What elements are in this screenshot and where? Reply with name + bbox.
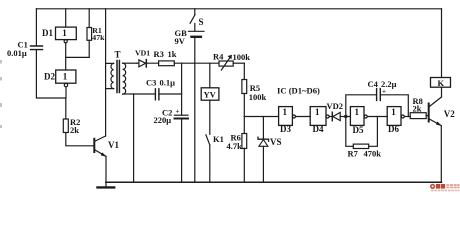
wire D1 out down	[65, 43, 67, 70]
gate D1 output bubble	[64, 40, 67, 43]
svg-text:D1: D1	[42, 28, 53, 38]
wire top rail	[36, 8, 441, 10]
svg-text:47k: 47k	[92, 33, 105, 42]
resistor R1	[87, 28, 92, 41]
wire left column top (to C1)	[35, 9, 37, 46]
relay coil K	[441, 9, 443, 78]
ground	[105, 182, 107, 187]
svg-text:1: 1	[315, 107, 320, 117]
resistor R6	[242, 134, 247, 149]
wire R5 top	[243, 63, 245, 79]
wire secondary top (main mid rail)	[123, 62, 137, 64]
wire VS drop	[262, 117, 264, 140]
svg-text:1: 1	[391, 107, 396, 117]
resistor R5	[242, 80, 247, 94]
transformer T primary winding	[111, 63, 114, 88]
wire K1 down	[209, 145, 211, 182]
wire C3 left	[134, 93, 156, 95]
edge marks	[0, 60, 2, 128]
svg-text:+: +	[176, 108, 180, 116]
svg-text:VD1: VD1	[135, 48, 150, 57]
diode VD1	[139, 60, 146, 67]
capacitor C1	[31, 46, 43, 50]
svg-text:2k: 2k	[413, 104, 422, 114]
wire D3 to D4	[296, 116, 311, 118]
wire secondary drop to ground rail	[133, 94, 135, 182]
transformer T secondary winding	[123, 63, 126, 94]
wire R5 to junction	[243, 94, 245, 117]
svg-text:K1: K1	[213, 134, 224, 144]
watermark	[430, 184, 460, 192]
svg-text:2k: 2k	[70, 125, 79, 135]
transformer T primary stubs	[106, 63, 114, 88]
svg-text:K: K	[438, 78, 445, 88]
solenoid valve YV	[201, 88, 219, 100]
svg-text:D5: D5	[353, 125, 364, 135]
wire YV drop	[209, 63, 211, 88]
transistor V2	[428, 104, 430, 122]
switch S	[194, 9, 196, 15]
wire junction to D3	[244, 116, 278, 118]
svg-text:D3: D3	[280, 124, 291, 134]
gate D4	[310, 107, 326, 126]
svg-text:VS: VS	[270, 137, 282, 147]
svg-text:1: 1	[355, 107, 360, 117]
wire C1 bottom to junction	[36, 50, 65, 98]
capacitor C2	[175, 114, 189, 116]
wire R4 to R5	[233, 62, 244, 64]
wire R8 to V2 base	[426, 115, 429, 117]
svg-text:1k: 1k	[168, 49, 177, 59]
wire D6 to R8	[404, 116, 410, 118]
transformer T core	[117, 61, 119, 93]
wire S to GB	[194, 24, 196, 32]
wire bottom rail	[106, 181, 442, 183]
wire R3 to R4	[174, 62, 219, 64]
resistor R2	[63, 119, 68, 133]
svg-text:9V: 9V	[175, 36, 186, 46]
gate D5	[350, 107, 364, 126]
svg-text:R3: R3	[154, 49, 164, 59]
resistor R8	[410, 113, 426, 119]
wire R1 top drop	[88, 9, 90, 28]
svg-text:220μ: 220μ	[154, 115, 172, 125]
svg-text:YV: YV	[204, 90, 217, 100]
wire junction down to R2	[65, 98, 67, 119]
wire D2 out to junction	[65, 87, 67, 98]
gate D2	[56, 70, 76, 83]
wire C3 right	[159, 93, 182, 95]
wire YV to K1	[209, 100, 211, 134]
svg-text:D6: D6	[388, 124, 399, 134]
gate D1	[56, 27, 77, 39]
wire VD2 to junction	[340, 116, 350, 118]
svg-text:100k: 100k	[249, 92, 267, 102]
svg-text:R7: R7	[348, 149, 359, 159]
gate D2 output bubble	[64, 83, 67, 86]
wire VS bottom	[262, 146, 264, 182]
svg-text:C3: C3	[146, 77, 156, 87]
svg-text:IC (D1~D6): IC (D1~D6)	[277, 86, 320, 96]
svg-text:1: 1	[283, 107, 288, 117]
node junction dot	[344, 115, 347, 118]
svg-text:0.1μ: 0.1μ	[160, 77, 176, 87]
svg-text:VD2: VD2	[327, 101, 344, 111]
svg-text:1: 1	[62, 28, 67, 38]
wire primary column	[105, 9, 107, 136]
wire R6 bottom	[243, 148, 245, 182]
transistor V1	[93, 139, 95, 152]
wire V1 emitter to ground	[105, 156, 107, 182]
svg-text:V1: V1	[108, 140, 119, 150]
wire V2 emitter down	[440, 126, 442, 183]
resistor R3	[159, 61, 175, 66]
switch K1	[206, 135, 210, 145]
svg-text:T: T	[115, 50, 121, 60]
wire junction to R6	[243, 117, 245, 134]
svg-text:C4: C4	[368, 79, 379, 89]
svg-text:+: +	[382, 88, 386, 96]
svg-text:4.7k: 4.7k	[227, 141, 243, 151]
svg-text:100k: 100k	[233, 52, 251, 62]
wire C2 drop	[181, 63, 183, 115]
capacitor C4 loop	[346, 95, 377, 117]
svg-text:470k: 470k	[364, 149, 382, 159]
wire jog D1/R1	[66, 56, 90, 58]
capacitor C3	[155, 89, 159, 100]
svg-text:D2: D2	[44, 72, 55, 82]
potentiometer R4	[219, 61, 233, 66]
wire R1 bottom	[88, 40, 90, 57]
svg-text:D4: D4	[313, 124, 324, 134]
wire secondary bottom	[123, 93, 134, 95]
wire VD1 to R3	[137, 62, 159, 64]
battery GB	[188, 30, 204, 32]
svg-text:1: 1	[63, 72, 68, 82]
resistor R7 loop	[346, 117, 354, 147]
svg-text:0.01μ: 0.01μ	[7, 48, 27, 58]
wire R2 bottom to V1 base	[66, 133, 95, 146]
wire C2 bottom	[181, 120, 183, 183]
svg-text:S: S	[199, 17, 204, 27]
wire GB down across to bottom rail	[194, 37, 196, 183]
wire D1 input drop	[65, 9, 67, 27]
gate D3	[279, 107, 293, 126]
wire D4 to VD2	[329, 116, 332, 118]
svg-text:R4: R4	[213, 52, 224, 62]
wire D5 to D6	[367, 116, 387, 118]
zener diode VS	[258, 137, 269, 141]
gate D6	[387, 107, 401, 126]
svg-text:V2: V2	[444, 109, 455, 119]
diode VD2	[331, 112, 333, 121]
